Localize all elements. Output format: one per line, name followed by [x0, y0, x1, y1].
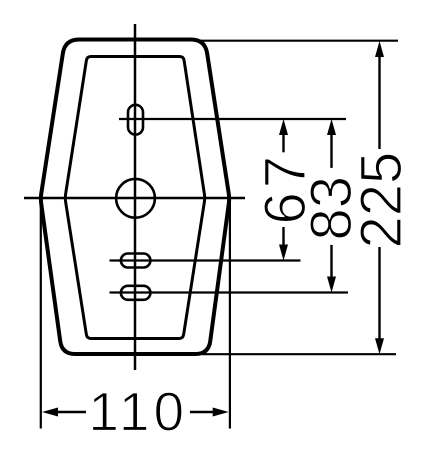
svg-text:110: 110 [88, 381, 188, 443]
svg-text:225: 225 [349, 152, 414, 249]
